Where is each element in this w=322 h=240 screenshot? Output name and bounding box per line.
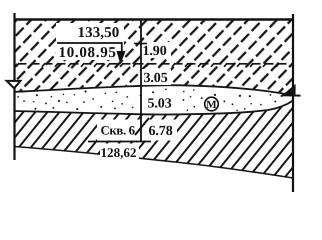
svg-text:128,62: 128,62: [101, 145, 137, 160]
svg-text:5.03: 5.03: [148, 97, 172, 112]
svg-text:1.90: 1.90: [143, 44, 167, 59]
svg-text:133,50: 133,50: [78, 25, 120, 41]
svg-text:3.05: 3.05: [144, 71, 168, 86]
svg-text:М: М: [206, 99, 217, 111]
svg-text:6.78: 6.78: [149, 124, 173, 139]
svg-text:10.08.95: 10.08.95: [59, 45, 117, 61]
svg-text:Скв. 6: Скв. 6: [101, 124, 136, 138]
